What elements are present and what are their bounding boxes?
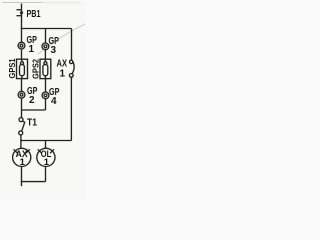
svg-text:GPS1: GPS1 — [8, 58, 17, 79]
wire — [45, 166, 47, 182]
wire — [21, 79, 23, 92]
pilot device GP3 — [42, 43, 49, 50]
svg-text:T1: T1 — [27, 118, 37, 129]
switch box GPS2 — [40, 59, 51, 78]
wire main drop — [21, 4, 23, 43]
wire OL drop — [45, 141, 47, 149]
wire bottom bus — [22, 140, 72, 142]
switch box GPS1 — [17, 59, 28, 78]
pilot device GP4 — [42, 92, 49, 99]
faint page edge line — [2, 2, 42, 4]
overload OL — [37, 148, 55, 166]
pushbutton PB1 — [17, 10, 24, 16]
pilot device GP2 — [18, 91, 25, 98]
wire merge bar — [22, 109, 46, 111]
wire — [21, 166, 23, 186]
wire — [21, 49, 23, 59]
wire branch bus — [22, 28, 72, 30]
svg-text:1: 1 — [20, 157, 26, 168]
wire bottom connector — [22, 181, 46, 183]
svg-text:PB1: PB1 — [27, 9, 41, 20]
svg-text:2: 2 — [29, 95, 35, 106]
pilot device GP1 — [18, 42, 25, 49]
svg-text:1: 1 — [44, 157, 50, 168]
wire — [44, 50, 46, 59]
contact AX 1 — [69, 60, 74, 140]
wire AX1 branch drop — [71, 29, 73, 61]
wire — [45, 79, 47, 92]
coil AX 1 — [13, 148, 31, 166]
svg-text:GPS2: GPS2 — [32, 58, 41, 79]
svg-text:1: 1 — [29, 44, 35, 55]
svg-text:4: 4 — [51, 96, 57, 107]
svg-text:3: 3 — [51, 45, 57, 56]
faint page curl arc — [38, 24, 85, 54]
svg-text:1: 1 — [60, 69, 66, 80]
wire — [21, 98, 23, 110]
junction dots — [21, 28, 23, 30]
wire — [45, 99, 47, 110]
disconnect switch T1 — [19, 110, 25, 148]
wire GP3 drop — [45, 29, 47, 43]
